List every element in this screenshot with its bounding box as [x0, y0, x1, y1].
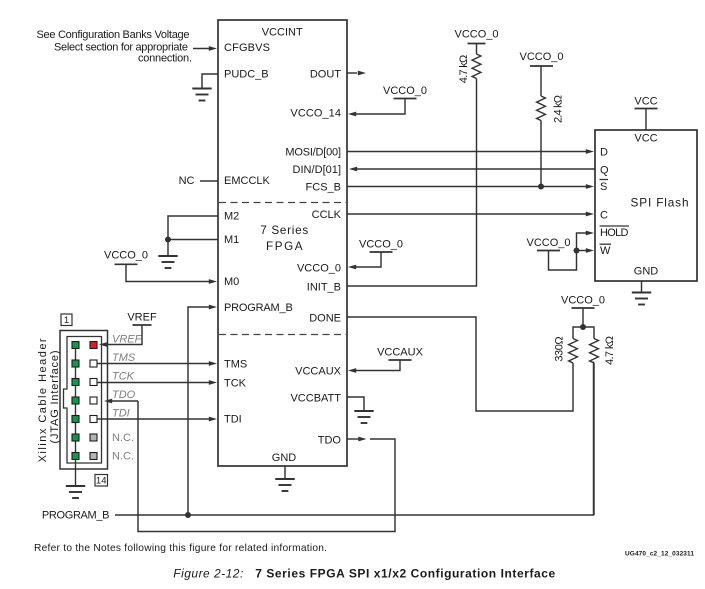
arrow into CFGBVS pin [209, 46, 217, 51]
wire flash Q to DIN/D[01] [357, 168, 595, 170]
svg-text:VCCBATT: VCCBATT [290, 393, 341, 405]
svg-text:VCC: VCC [634, 133, 657, 145]
svg-text:PROGRAM_B: PROGRAM_B [224, 302, 293, 314]
svg-text:NC: NC [179, 175, 195, 187]
wire FPGA GND stub [284, 466, 286, 478]
arrow into HOLD pin [586, 231, 594, 236]
ground at JTAG header [66, 486, 85, 498]
resistor R2 2.4 k ohm (FCS_B pull-up) [537, 96, 546, 120]
arrow into TCK pin [209, 380, 217, 385]
junction W/HOLD [574, 248, 580, 254]
junction PROGRAM_B [185, 512, 191, 518]
svg-text:Select section for appropriate: Select section for appropriate [54, 41, 188, 53]
junction R3/R4 tops [580, 324, 586, 330]
svg-text:VCCAUX: VCCAUX [295, 366, 342, 378]
svg-text:W: W [600, 245, 611, 257]
JTAG pin 4 (TMS) [90, 360, 97, 367]
svg-text:TCK: TCK [224, 378, 247, 390]
svg-text:VCC: VCC [634, 96, 657, 108]
arrow DOUT [358, 71, 366, 76]
wire TDO loop to header [138, 401, 395, 532]
svg-text:VCCAUX: VCCAUX [377, 347, 424, 359]
arrow into VREF pin [99, 342, 107, 347]
JTAG pin 10 (TDI) [90, 416, 97, 423]
wire M1 [168, 240, 218, 256]
svg-text:N.C.: N.C. [112, 432, 134, 444]
svg-text:M0: M0 [224, 276, 239, 288]
svg-text:14: 14 [96, 476, 107, 487]
wire VCCO_0 loop to HOLD [549, 233, 587, 270]
JTAG pin 12 (NC) [90, 434, 97, 441]
svg-text:7 Series: 7 Series [260, 224, 308, 237]
svg-text:See Configuration Banks Voltag: See Configuration Banks Voltage [37, 29, 190, 41]
svg-text:VCCO_0: VCCO_0 [104, 250, 148, 262]
JTAG pin 8 (TDO) [90, 397, 97, 404]
wire flash GND stub [641, 281, 643, 292]
svg-text:CFGBVS: CFGBVS [224, 42, 270, 54]
svg-text:VCCO_0: VCCO_0 [297, 263, 341, 275]
wire PROGRAM_B up to pin [188, 307, 210, 515]
JTAG header J1 outer box [60, 331, 108, 470]
svg-text:Refer to the Notes following t: Refer to the Notes following this figure… [34, 543, 327, 554]
svg-text:330Ω: 330Ω [554, 336, 566, 361]
wire CFGBVS from note [193, 48, 210, 50]
arrow TDO [358, 437, 366, 442]
JTAG pin 11 (green) [72, 434, 79, 441]
JTAG pin 5 (green) [72, 379, 79, 386]
svg-text:DIN/D[01]: DIN/D[01] [293, 164, 342, 176]
JTAG pin1 index box [61, 314, 72, 326]
arrow into PROGRAM_B pin [209, 305, 217, 310]
arrow into VCCAUX pin [348, 368, 356, 373]
svg-text:M1: M1 [224, 234, 239, 246]
resistor R3 330 ohm (DONE pull-up) [569, 339, 578, 363]
svg-text:VREF: VREF [127, 312, 157, 324]
svg-text:TMS: TMS [112, 352, 136, 364]
wire junction to resistor tops [573, 327, 594, 339]
wire R1 top lead [476, 44, 478, 55]
arrow into header TDO pin [104, 399, 112, 404]
wire VCCO_0 to VCCO_14 pin [352, 99, 405, 115]
svg-text:MOSI/D[00]: MOSI/D[00] [285, 147, 341, 159]
svg-text:VCCO_14: VCCO_14 [290, 108, 341, 120]
FPGA U1 (7 Series FPGA) [218, 20, 347, 466]
resistor R1 4.7 k ohm (INIT_B pull-up) [472, 54, 481, 78]
arrow into M0 [209, 279, 217, 284]
svg-text:VCCO_0: VCCO_0 [561, 295, 605, 307]
ground at M1/M2 [158, 256, 177, 268]
svg-text:INIT_B: INIT_B [307, 282, 341, 294]
JTAG pin 13 (green) [72, 453, 79, 460]
svg-text:1: 1 [64, 315, 69, 326]
wire VCCO_0 supply to pin [352, 252, 381, 267]
wire TDO to header pin [110, 400, 138, 402]
JTAG pin 7 (green) [72, 397, 79, 404]
JTAG pin 6 (TCK) [90, 379, 97, 386]
wire VCCBATT to ground [347, 397, 364, 410]
svg-text:Figure 2-12:: Figure 2-12: [173, 567, 243, 581]
svg-text:TCK: TCK [112, 371, 135, 383]
JTAG pin 14 (NC) [90, 453, 97, 460]
ground at VCCBATT [354, 411, 373, 423]
svg-text:4.7 kΩ: 4.7 kΩ [604, 336, 616, 365]
arrow into flash D [586, 149, 594, 154]
wire junction to W [577, 250, 587, 252]
JTAG pin14 index box [95, 475, 108, 487]
svg-text:FCS_B: FCS_B [306, 182, 341, 194]
svg-text:UG470_c2_12_032311: UG470_c2_12_032311 [625, 550, 694, 557]
svg-text:2.4 kΩ: 2.4 kΩ [553, 95, 565, 123]
svg-text:M2: M2 [224, 211, 239, 223]
svg-text:FPGA: FPGA [266, 240, 303, 253]
svg-text:C: C [600, 210, 608, 222]
svg-text:7 Series FPGA SPI x1/x2 Config: 7 Series FPGA SPI x1/x2 Configuration In… [255, 567, 555, 581]
svg-text:VCCO_0: VCCO_0 [454, 29, 498, 41]
svg-text:4.7 kΩ: 4.7 kΩ [458, 55, 470, 84]
svg-text:HOLD: HOLD [600, 227, 629, 239]
wire VCCO_0 to M0 [126, 264, 210, 282]
svg-text:TDO: TDO [318, 435, 342, 447]
svg-text:CCLK: CCLK [312, 209, 342, 221]
svg-text:VREF: VREF [112, 334, 143, 346]
wire VCCAUX to pin [352, 360, 400, 371]
svg-text:DOUT: DOUT [310, 69, 341, 81]
wire FCS_B to S [347, 186, 586, 188]
arrow into TDI pin [209, 417, 217, 422]
JTAG pin 1 (green) [72, 342, 79, 349]
wire header TDI to FPGA [97, 418, 210, 420]
svg-text:Xilinx Cable Header: Xilinx Cable Header [37, 338, 49, 462]
svg-text:TDO: TDO [112, 389, 136, 401]
arrow into VCCO_0 pin [348, 265, 356, 270]
wire R1 to INIT_B [347, 79, 477, 287]
svg-text:GND: GND [272, 452, 297, 464]
wire PROGRAM_B net [115, 362, 594, 516]
svg-text:VCCO_0: VCCO_0 [519, 51, 563, 63]
wire MOSI/D[00] to D [347, 151, 586, 153]
arrow into VCCO_14 [348, 112, 356, 117]
wire NC to EMCCLK [200, 180, 218, 182]
FPGA dashed separator 1 [219, 202, 346, 204]
ground at FPGA GND [275, 479, 294, 491]
svg-text:SPI Flash: SPI Flash [631, 195, 689, 209]
wire supply to junction [582, 308, 584, 327]
svg-text:PROGRAM_B: PROGRAM_B [42, 509, 110, 521]
svg-text:D: D [600, 147, 608, 159]
wire R2 bottom to FCS_B junction [540, 121, 542, 187]
svg-text:VCCINT: VCCINT [262, 27, 303, 39]
svg-text:N.C.: N.C. [112, 451, 134, 463]
svg-text:TMS: TMS [224, 359, 247, 371]
resistor R4 4.7 k ohm (PROGRAM_B pull-up) [590, 339, 599, 363]
wire DONE to R3 [347, 317, 573, 411]
arrow into flash C [586, 212, 594, 217]
wire VREF to header pin [104, 325, 142, 345]
svg-text:Q: Q [600, 165, 609, 177]
JTAG pin chain wire [75, 345, 77, 485]
FPGA dashed separator 2 [219, 334, 346, 336]
wire VCC to flash [645, 109, 647, 131]
svg-text:connection.: connection. [138, 53, 192, 65]
JTAG pin 2 (VREF) [90, 342, 97, 349]
wire header TCK to FPGA [97, 382, 210, 384]
JTAG pin 3 (green) [72, 360, 79, 367]
wire TDO out [347, 438, 359, 440]
svg-text:EMCCLK: EMCCLK [224, 175, 271, 187]
wire DOUT out [347, 72, 357, 74]
arrow into DIN/D[01] [349, 167, 357, 172]
svg-text:DONE: DONE [309, 313, 341, 325]
svg-text:VCCO_0: VCCO_0 [359, 239, 403, 251]
JTAG pin 9 (green) [72, 416, 79, 423]
wire R2 top lead [540, 66, 542, 96]
wire PUDC_B to ground [202, 74, 218, 88]
wire CCLK to C [347, 213, 586, 215]
junction FCS_B / 2.4k pull-up [538, 184, 544, 190]
ground at flash GND [632, 293, 651, 305]
wire header TMS to FPGA [97, 363, 210, 365]
svg-text:(JTAG Interface): (JTAG Interface) [49, 351, 61, 444]
svg-text:VCCO_0: VCCO_0 [526, 237, 570, 249]
svg-text:VCCO_0: VCCO_0 [383, 85, 427, 97]
SPI Flash U2 [595, 130, 697, 281]
svg-text:S: S [600, 181, 607, 193]
wire M2 [168, 216, 218, 239]
svg-text:PUDC_B: PUDC_B [224, 69, 269, 81]
arrow into TMS pin [209, 361, 217, 366]
svg-text:GND: GND [634, 266, 659, 278]
svg-text:TDI: TDI [224, 414, 242, 426]
ground at PUDC_B [192, 89, 211, 101]
wire R4 bottom to PROGRAM_B net [593, 363, 595, 515]
junction M1/M2 [165, 237, 171, 243]
arrow into W pin [586, 248, 594, 253]
svg-text:TDI: TDI [112, 408, 130, 420]
arrow into flash S [586, 184, 594, 189]
JTAG header inner shroud with key notch [64, 337, 102, 464]
